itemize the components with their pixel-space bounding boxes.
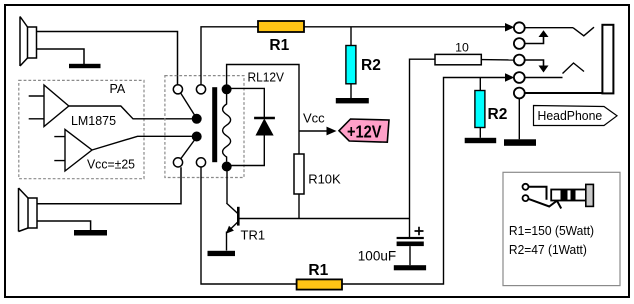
relay pole 2 common node xyxy=(192,132,202,142)
transistor TR1 collector lead xyxy=(226,203,238,214)
wire jack pin 5 to ground xyxy=(518,98,520,139)
legend plug icon: sleeve lead xyxy=(529,198,561,209)
wire resistor 10 left down to base node and capacitor xyxy=(410,59,435,237)
wire Vcc to +12V arrow xyxy=(299,130,327,132)
resistor R2 (right) xyxy=(475,91,485,128)
svg-text:R1: R1 xyxy=(269,37,289,54)
transistor TR1 emitter lead xyxy=(228,222,238,232)
jack body xyxy=(602,25,613,94)
op-amp U1b input pins xyxy=(54,137,65,161)
ground (jack sleeve) xyxy=(504,139,536,146)
label flag HeadPhone xyxy=(534,106,618,126)
arrowhead up (pin 2) xyxy=(539,30,549,37)
wire R2 right to ground xyxy=(479,128,481,138)
relay coil terminal bottom xyxy=(222,162,232,172)
ground (TR1 emitter) xyxy=(208,251,236,256)
legend plug icon: tip lead xyxy=(529,187,547,200)
relay pole 1 common node xyxy=(192,114,202,124)
svg-text:100uF: 100uF xyxy=(358,249,396,264)
wire TR1 base rail xyxy=(238,218,409,220)
ground (R2 right) xyxy=(465,138,497,143)
capacitor C1 bottom plate xyxy=(397,242,424,247)
wire SPK2 top terminal to relay contact xyxy=(37,167,181,204)
capacitor C1 top plate xyxy=(397,237,424,239)
jack J1 pin 3 (ring) xyxy=(514,55,525,66)
svg-text:PA: PA xyxy=(110,82,126,96)
svg-text:R2: R2 xyxy=(361,57,381,74)
wire U1a output to relay pole 1 xyxy=(69,106,197,119)
wire bottom R1 to jack pin 4 xyxy=(342,78,506,285)
relay coil winding xyxy=(223,94,231,162)
legend plug icon: sleeve terminal circle xyxy=(523,195,529,201)
wire capacitor to ground xyxy=(409,246,411,265)
wire R2 to ground xyxy=(350,84,352,98)
arrowhead into jack pin 4 xyxy=(505,73,514,82)
jack ring switch contact xyxy=(563,63,585,74)
arrowhead down (pin 3) xyxy=(539,66,549,73)
jack J1 pin 2 xyxy=(514,38,525,49)
diode D1 cathode bar xyxy=(254,117,275,119)
legend plug icon: band 1 xyxy=(561,190,568,201)
jack J1 pin 5 (sleeve) xyxy=(514,88,525,99)
wire coil top to Vcc rail xyxy=(227,65,299,155)
svg-text:R1: R1 xyxy=(308,262,328,279)
wire jack pin 1 to tip switch xyxy=(524,27,573,29)
wire R10K bottom to base node xyxy=(298,194,300,219)
svg-text:R10K: R10K xyxy=(308,172,341,187)
jack tip switch contact xyxy=(573,27,594,36)
transistor TR1 base bar xyxy=(237,207,240,226)
speaker SPK2 (bottom left) xyxy=(19,188,38,232)
relay core bar xyxy=(212,87,217,162)
wire SPK1 bottom terminal to ground xyxy=(37,49,85,64)
wire U1b output to relay pole 2 xyxy=(92,136,197,150)
speaker SPK1 (top left) xyxy=(20,17,37,67)
relay contact (NO top, to R1) xyxy=(196,85,205,94)
relay contact (NO bottom, to bottom R1) xyxy=(196,158,205,167)
svg-text:R1=150 (5Watt): R1=150 (5Watt) xyxy=(509,223,594,238)
PA amplifier dashed enclosure xyxy=(19,80,144,178)
relay RL12V dashed enclosure xyxy=(165,76,244,178)
svg-text:LM1875: LM1875 xyxy=(71,113,116,128)
legend box xyxy=(503,172,620,285)
legend plug icon: tip terminal circle xyxy=(523,184,529,190)
svg-text:10: 10 xyxy=(455,41,469,55)
ground (bottom speaker) xyxy=(74,230,107,236)
wire R1 to headphone tip contact xyxy=(304,26,507,28)
svg-text:R2=47 (1Watt): R2=47 (1Watt) xyxy=(509,242,587,257)
wire jack pin 5 to body xyxy=(524,92,607,94)
wire coil bottom to TR1 collector xyxy=(226,168,228,203)
arrowhead into jack pin 1 xyxy=(505,23,514,32)
ground (top speaker) xyxy=(69,64,101,68)
relay contact (NC bottom, to SPK2) xyxy=(173,158,182,167)
svg-text:Vcc: Vcc xyxy=(303,111,325,126)
wire SPK1 top terminal to relay contact xyxy=(37,32,178,85)
wire jack pin 3 with down arrow xyxy=(524,60,543,66)
capacitor C1 plus sign xyxy=(415,227,424,236)
wire SPK2 bottom terminal to ground xyxy=(37,221,91,230)
relay lever pole 2 xyxy=(181,137,197,159)
ground (R2 top) xyxy=(336,98,369,103)
wire jack pin 2 with up arrow xyxy=(524,37,543,44)
svg-text:Vcc=±25: Vcc=±25 xyxy=(87,156,135,171)
wire relay NO bottom contact down to bottom R1 line xyxy=(201,167,297,284)
transistor TR1 emitter arrowhead xyxy=(226,226,234,234)
wire resistor 10 right to jack ring contact xyxy=(481,59,514,61)
wire R1 line to R2 top xyxy=(350,27,352,46)
legend plug icon: barrel xyxy=(551,190,586,201)
op-amp U1b (bottom channel) xyxy=(65,129,92,171)
power flag +12V xyxy=(339,119,389,142)
resistor R1 (bottom) xyxy=(297,279,342,289)
svg-text:HeadPhone: HeadPhone xyxy=(538,108,603,123)
ground (capacitor) xyxy=(394,265,426,270)
jack J1 pin 1 (tip) xyxy=(514,22,525,33)
wire coil top to diode cathode xyxy=(227,88,265,117)
svg-text:+12V: +12V xyxy=(347,121,382,141)
jack J1 pin 4 xyxy=(514,72,525,83)
arrowhead to +12V xyxy=(327,127,337,136)
op-amp U1a input pins xyxy=(29,96,44,119)
resistor R10K xyxy=(294,154,304,194)
wire R2 right to jack pin 4 line xyxy=(479,78,481,91)
legend plug icon: handle xyxy=(586,184,594,206)
wire jack pin 4 to ring switch xyxy=(524,77,562,79)
svg-text:RL12V: RL12V xyxy=(248,69,285,84)
relay lever pole 1 xyxy=(181,93,197,118)
wire TR1 emitter to ground xyxy=(226,232,228,251)
op-amp U1a (top channel) xyxy=(44,85,69,127)
wire diode anode to coil bottom xyxy=(227,135,265,166)
relay coil terminal top xyxy=(222,84,232,94)
legend plug icon: band 2 xyxy=(571,190,576,201)
diode D1 xyxy=(256,120,273,136)
wire relay NO top contact up to R1 line xyxy=(201,27,258,85)
svg-text:R2: R2 xyxy=(488,106,508,123)
resistor 10 xyxy=(435,54,481,64)
svg-text:TR1: TR1 xyxy=(241,228,266,243)
resistor R2 (top) xyxy=(346,46,356,84)
relay contact (NC top, to SPK1) xyxy=(173,85,182,94)
resistor R1 (top) xyxy=(258,21,304,32)
